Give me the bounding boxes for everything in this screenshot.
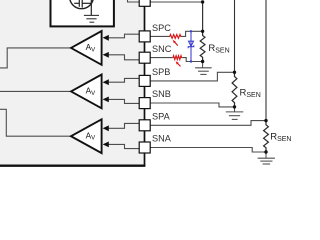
svg-text:SNB: SNB	[152, 89, 171, 99]
svg-text:SNC: SNC	[152, 44, 172, 54]
svg-text:SNA: SNA	[152, 134, 172, 144]
svg-text:SPB: SPB	[152, 67, 170, 77]
svg-text:SPA: SPA	[152, 111, 171, 121]
svg-text:SPC: SPC	[152, 23, 171, 33]
